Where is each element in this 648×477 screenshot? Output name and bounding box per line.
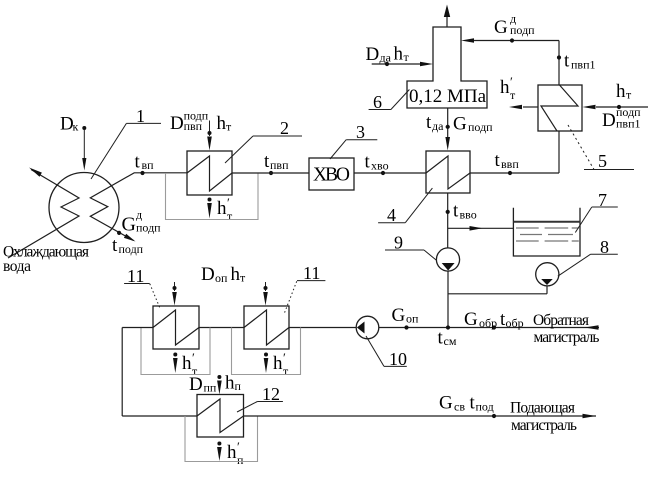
svg-text:t: t [495, 150, 501, 171]
label G_podp^d near condenser [122, 208, 162, 236]
branch wire to tank 7 [448, 226, 513, 231]
svg-text:9: 9 [394, 233, 403, 253]
drain arrow h't below exchanger 2 [207, 195, 233, 223]
leader 8 [558, 237, 618, 276]
svg-text:магистраль: магистраль [511, 417, 577, 434]
steam h_t line into exchanger 5 [583, 105, 648, 110]
svg-text:оп: оп [215, 271, 228, 285]
leader 1 [91, 106, 161, 179]
svg-text:оп: оп [406, 312, 419, 326]
block 3 XVO [309, 158, 354, 190]
label supply main [510, 400, 577, 435]
label D_da h_t [366, 44, 410, 66]
svg-text:пвп: пвп [184, 119, 203, 133]
drain h't out of exchanger 5 [500, 74, 538, 109]
svg-text:′: ′ [237, 439, 240, 454]
svg-text:ХВО: ХВО [313, 165, 350, 186]
heat exchanger 12 [197, 395, 244, 438]
svg-text:т: т [510, 88, 516, 102]
svg-text:D: D [602, 110, 616, 131]
svg-text:см: см [444, 334, 457, 348]
svg-text:D: D [189, 374, 203, 395]
heat exchanger 4 [426, 151, 470, 193]
wire from tank to exchanger 4 with G_podp arrow [445, 108, 450, 151]
wire exchanger5 bottom to t_vvp line [558, 131, 560, 173]
label t_vvp [495, 150, 520, 171]
svg-text:да: да [380, 50, 392, 64]
svg-text:подп: подп [119, 242, 144, 256]
bypass drain loop 11b [232, 328, 301, 375]
label t_pvp1 [564, 51, 596, 72]
svg-text:h: h [225, 373, 235, 394]
steam arrow into exchanger 2 [207, 121, 212, 151]
node t_pvp [269, 171, 273, 175]
leader 9 [385, 233, 436, 261]
svg-text:t: t [453, 201, 459, 222]
wire pump 8 to mixing line [448, 286, 547, 294]
svg-text:h: h [500, 77, 510, 98]
svg-text:h: h [182, 353, 192, 374]
svg-text:к: к [73, 120, 79, 134]
svg-text:G: G [122, 214, 136, 236]
label D_pp h_p [189, 373, 242, 395]
wire exchanger 4 down to pump 9 [447, 193, 449, 248]
wire pump10 to exchanger 11b [289, 327, 356, 329]
label t_xvo [365, 152, 389, 173]
steam line D_da into column [372, 62, 433, 67]
label cooling water [3, 244, 89, 276]
label G_sv t_pod [439, 393, 494, 414]
steam arrow into 11b [263, 282, 268, 306]
svg-text:т: т [227, 209, 233, 223]
wire cooling water path through condenser [8, 168, 79, 259]
svg-text:п: п [235, 379, 242, 393]
node t_vp [140, 171, 144, 175]
svg-text:11: 11 [303, 263, 320, 283]
heat exchanger 11b [244, 306, 289, 349]
heat exchanger 11a [153, 306, 199, 349]
steam arrow into 11a [172, 282, 177, 306]
bypass drain loop 12 [185, 416, 258, 462]
svg-text:под: под [476, 399, 494, 413]
svg-text:т: т [283, 364, 289, 378]
node t_pvp1 [557, 55, 561, 59]
return main line [379, 325, 599, 330]
svg-text:магистраль: магистраль [534, 329, 600, 346]
label D_pvp1^podp [602, 105, 641, 131]
drain h'p below 12 [217, 439, 244, 467]
heat exchanger 5 [538, 85, 582, 131]
label D_pvp^podp h_t above exchanger 2 [170, 109, 232, 135]
svg-text:h: h [217, 198, 227, 219]
label t_vvo [453, 201, 477, 222]
svg-text:0,12 МПа: 0,12 МПа [409, 86, 487, 107]
svg-text:п: п [237, 453, 244, 467]
wire pump 9 down to t_sm [447, 271, 449, 328]
svg-text:Обратная: Обратная [533, 312, 589, 329]
svg-text:т: т [404, 50, 410, 64]
wire t_pvp to XVO [232, 172, 309, 174]
svg-text:G: G [464, 309, 478, 330]
svg-text:11: 11 [127, 266, 144, 286]
svg-text:4: 4 [387, 205, 396, 225]
svg-text:G: G [392, 305, 406, 326]
wire exchanger 4 to exchanger 5 bottom [470, 172, 559, 174]
svg-text:хво: хво [371, 158, 389, 172]
svg-text:т: т [240, 271, 246, 285]
drain h't below 11a [173, 350, 198, 378]
svg-text:′: ′ [510, 74, 513, 89]
svg-text:t: t [564, 51, 570, 72]
deaerator 6 column and tank [407, 27, 487, 108]
drain h't below 11b [264, 350, 289, 378]
svg-text:7: 7 [598, 190, 607, 210]
bypass drain loop 11a [141, 328, 210, 375]
svg-text:12: 12 [262, 384, 280, 404]
node G_op [404, 325, 408, 329]
svg-text:D: D [366, 44, 380, 65]
svg-text:да: да [432, 119, 444, 133]
svg-text:2: 2 [280, 118, 289, 138]
svg-text:т: т [626, 88, 632, 102]
node t_vvo [446, 210, 450, 214]
svg-text:′: ′ [227, 195, 230, 210]
svg-text:св: св [454, 399, 465, 413]
label D_op h_t [201, 264, 246, 285]
svg-text:t: t [365, 152, 371, 173]
svg-text:пвп: пвп [270, 158, 289, 172]
supply main line [244, 414, 597, 419]
leader 3 [330, 122, 377, 159]
svg-text:D: D [201, 264, 215, 285]
vent arrow from deaerator top [444, 5, 450, 28]
svg-text:обр: обр [506, 316, 524, 330]
svg-text:подп: подп [510, 23, 535, 37]
svg-text:8: 8 [600, 237, 609, 257]
wire condensate path through condenser to t_vp [90, 173, 187, 242]
svg-text:D: D [170, 113, 184, 134]
pump 8 [536, 263, 559, 286]
svg-text:подп: подп [468, 120, 493, 134]
leader 5 dashed [568, 125, 634, 171]
svg-text:h: h [273, 353, 283, 374]
svg-text:5: 5 [598, 151, 607, 171]
node G_obr [492, 325, 496, 329]
svg-text:вво: вво [460, 207, 477, 221]
label t_sm [438, 328, 457, 349]
svg-text:ввп: ввп [501, 157, 519, 171]
svg-text:10: 10 [389, 349, 407, 369]
svg-text:вп: вп [142, 158, 155, 172]
heat exchanger 2 [187, 151, 232, 195]
svg-text:h: h [394, 44, 404, 65]
leader 10 [366, 336, 407, 369]
wire G_podp^d into column [461, 38, 559, 43]
svg-text:t: t [112, 235, 118, 256]
label D_k [60, 114, 79, 135]
svg-text:G: G [494, 17, 508, 38]
svg-text:подп: подп [136, 221, 161, 235]
svg-text:1: 1 [136, 106, 145, 126]
wire XVO to exchanger 4 [354, 172, 426, 174]
svg-text:6: 6 [373, 92, 382, 112]
svg-text:вода: вода [3, 258, 31, 275]
pump 10 [356, 316, 379, 339]
svg-text:пп: пп [204, 380, 217, 394]
svg-text:h: h [616, 81, 626, 102]
label G_obr t_obr [464, 309, 524, 330]
svg-text:3: 3 [356, 122, 365, 142]
svg-text:G: G [453, 114, 467, 135]
svg-text:пвп1: пвп1 [571, 57, 596, 71]
label t_pvp [264, 151, 289, 172]
leader 11a dotted [124, 266, 160, 307]
svg-text:пвп1: пвп1 [616, 117, 641, 131]
label G_podp^d top [494, 12, 535, 39]
label G_op [392, 305, 420, 326]
steam arrow into 12 [217, 375, 222, 395]
svg-text:обр: обр [479, 316, 497, 330]
node G_podp^d on condensate drain [117, 231, 121, 235]
leader 11b dotted [285, 263, 326, 313]
leader 4 [378, 188, 432, 225]
leader 6 [369, 90, 410, 113]
svg-text:h: h [217, 113, 227, 134]
leader 12 [237, 384, 283, 412]
node t_sm junction [446, 325, 450, 329]
label t_vp [135, 152, 155, 173]
label return main [533, 312, 600, 346]
node G_sv [492, 414, 496, 418]
wire down to exchanger 5 [558, 41, 560, 86]
condenser 1 (circle) [49, 173, 119, 243]
svg-text:д: д [136, 208, 142, 222]
svg-text:Подающая: Подающая [510, 400, 575, 417]
svg-text:G: G [439, 393, 453, 414]
steam line D_k into condenser [82, 126, 86, 171]
svg-text:h: h [231, 264, 241, 285]
label t_podp [112, 235, 144, 256]
svg-text:′: ′ [283, 350, 286, 365]
bypass drain loop of exchanger 2 [166, 173, 259, 220]
leader 2 [225, 118, 302, 163]
label t_da [426, 112, 444, 133]
node t_xvo [381, 171, 385, 175]
label h_t right [616, 81, 632, 102]
tank 7 [513, 208, 580, 256]
svg-text:′: ′ [192, 350, 195, 365]
node t_vvp [508, 171, 512, 175]
svg-text:t: t [135, 152, 141, 173]
pump 9 [436, 248, 459, 271]
svg-text:h: h [227, 442, 237, 463]
wire 11a left down to exchanger 12 [122, 328, 197, 417]
wire 11b to 11a [199, 327, 244, 329]
label G_podp mid [453, 114, 493, 135]
svg-text:т: т [226, 119, 232, 133]
leader 7 [575, 190, 618, 233]
